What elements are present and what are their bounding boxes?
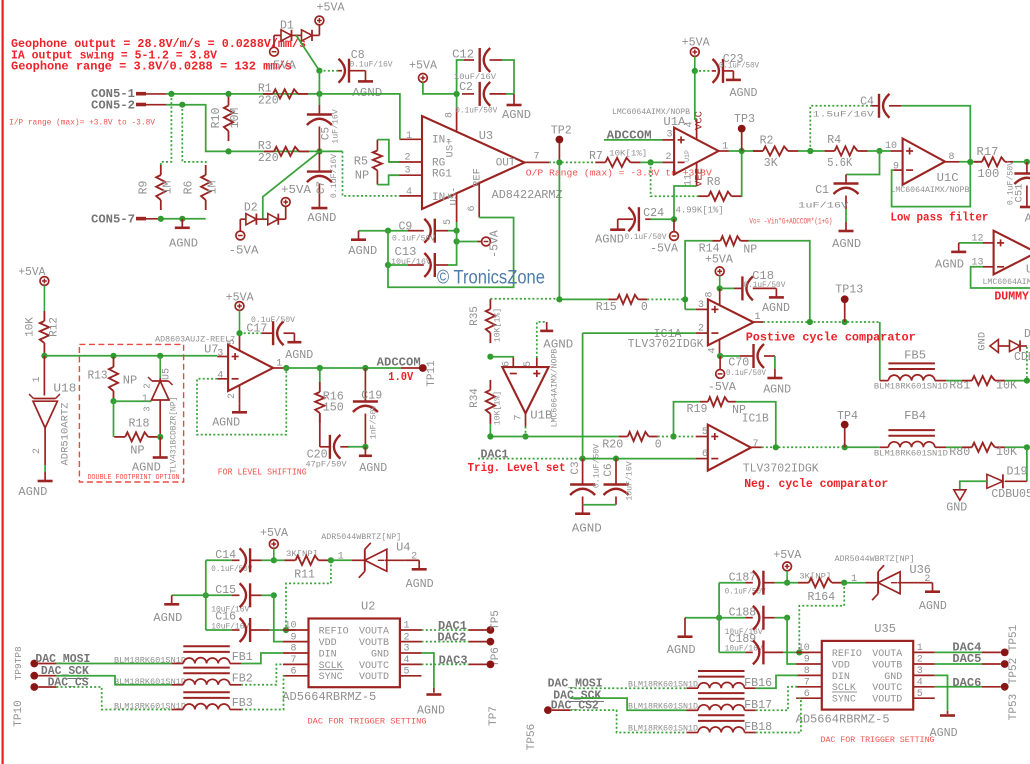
svg-text:AGND: AGND xyxy=(762,301,790,315)
junction IC1A pin8 supply xyxy=(717,285,723,291)
junction U3 OUT xyxy=(556,159,562,165)
junction U1A inverting node xyxy=(648,159,654,165)
svg-text:C70: C70 xyxy=(728,357,749,370)
svg-text:AGND: AGND xyxy=(212,415,240,429)
wire U1D feedback xyxy=(971,267,1030,288)
svg-text:C3: C3 xyxy=(570,461,582,474)
svg-text:CON5-2: CON5-2 xyxy=(91,99,135,113)
svg-text:10K: 10K xyxy=(25,317,37,337)
svg-text:2: 2 xyxy=(143,383,153,388)
pin 3 U2 xyxy=(400,652,422,654)
junction C19 top xyxy=(362,365,368,371)
resistor R7 xyxy=(595,161,605,163)
wire CON5-2 to R6 xyxy=(182,105,205,165)
pin 10 U2 xyxy=(283,629,309,631)
svg-text:D2: D2 xyxy=(244,202,258,215)
svg-text:9: 9 xyxy=(290,632,296,643)
pin 5 U2 xyxy=(400,675,422,677)
svg-text:R18: R18 xyxy=(129,417,150,431)
svg-text:10M: 10M xyxy=(229,108,242,129)
capacitor C20 xyxy=(319,413,321,447)
svg-text:U1P: U1P xyxy=(684,150,691,162)
svg-text:0.1uF/50V: 0.1uF/50V xyxy=(455,105,497,115)
svg-text:Geophone range = 3.8V/0.0288 =: Geophone range = 3.8V/0.0288 = 132 mm/s xyxy=(11,61,292,74)
svg-text:LMC6064AIMX/NOPB: LMC6064AIMX/NOPB xyxy=(983,277,1030,287)
svg-text:3: 3 xyxy=(404,644,410,655)
svg-text:R11: R11 xyxy=(294,569,315,582)
junction C3 top xyxy=(580,456,586,462)
wire 1V reference rail xyxy=(44,355,217,357)
junction R16 top xyxy=(317,365,323,371)
svg-text:U4: U4 xyxy=(396,541,410,555)
resistor R16 xyxy=(319,368,321,383)
junction R35 R34 node xyxy=(487,354,493,360)
pin 1 U2 xyxy=(400,629,422,631)
junction C9 right pin5 xyxy=(454,228,460,234)
wire R5 top bracket to pin2 xyxy=(377,140,399,162)
svg-text:10K[1%]: 10K[1%] xyxy=(609,148,647,158)
pin 1 U35 xyxy=(913,651,935,653)
junction R13 top xyxy=(110,353,116,359)
svg-text:TP53: TP53 xyxy=(1008,694,1020,720)
junction R1 right node A2 xyxy=(316,91,322,97)
svg-text:10K[1%]: 10K[1%] xyxy=(493,391,503,425)
svg-text:6: 6 xyxy=(290,667,296,678)
diode D19 xyxy=(1026,447,1028,481)
pin 6 U35 xyxy=(796,697,822,699)
svg-text:3: 3 xyxy=(217,348,223,359)
svg-text:5: 5 xyxy=(404,667,410,678)
capacitor C5 xyxy=(318,94,320,105)
svg-text:0.1uF/50V: 0.1uF/50V xyxy=(719,61,759,71)
frame border left edge xyxy=(2,0,4,764)
IC box U2 xyxy=(309,619,400,688)
ground AGND at cap rail xyxy=(685,617,719,619)
pin 7 U2 xyxy=(283,663,309,665)
wire C3 C6 bottoms xyxy=(583,504,616,506)
pin 4 U2 xyxy=(400,663,422,665)
wire R3 node diagonal to D2 xyxy=(320,150,343,152)
svg-text:0.1uF/50V: 0.1uF/50V xyxy=(625,232,667,242)
svg-text:BLM18RK601SN1D: BLM18RK601SN1D xyxy=(874,449,948,458)
svg-text:NP: NP xyxy=(355,168,369,182)
wire VEE to -5VA xyxy=(674,186,697,219)
junction CON5-1 node xyxy=(168,91,174,97)
pin 5 U35 xyxy=(913,697,935,699)
svg-text:0.1uF/50V: 0.1uF/50V xyxy=(725,586,766,596)
pin 9 U35 xyxy=(796,663,822,665)
svg-text:Vo= -Vin*G+ADCCOM*(1+G): Vo= -Vin*G+ADCCOM*(1+G) xyxy=(749,217,832,227)
svg-text:R12: R12 xyxy=(49,317,61,337)
resistor R1 xyxy=(263,93,273,95)
wire AGND-labeled net R1 node to pin1 xyxy=(320,94,400,139)
svg-text:R19: R19 xyxy=(687,403,708,416)
svg-text:10K: 10K xyxy=(996,380,1017,393)
svg-text:AGND: AGND xyxy=(169,236,198,250)
ground AGND at C23 xyxy=(732,71,734,80)
svg-text:AD5664RBRMZ-5: AD5664RBRMZ-5 xyxy=(282,690,376,704)
junction U7 supply xyxy=(236,330,242,336)
test point TP8 DAC_MOSI xyxy=(30,660,38,668)
svg-text:U5: U5 xyxy=(162,368,173,380)
svg-text:R4: R4 xyxy=(827,134,841,147)
ground AGND at U7 pin2 xyxy=(239,403,241,412)
svg-text:IC1B: IC1B xyxy=(742,412,769,426)
junction U7 output xyxy=(283,365,289,371)
svg-text:AGND: AGND xyxy=(406,577,434,591)
junction IC1B out R19 xyxy=(773,444,779,450)
svg-text:10K[1%]: 10K[1%] xyxy=(493,308,503,342)
ground AGND at U5 xyxy=(159,437,161,458)
svg-text:R6: R6 xyxy=(183,181,196,195)
svg-text:AGND: AGND xyxy=(417,704,445,718)
capacitor C51 xyxy=(1026,162,1028,174)
svg-text:GND: GND xyxy=(977,332,989,351)
svg-text:OUT: OUT xyxy=(496,157,516,169)
resistor R35 xyxy=(489,299,491,309)
wire FB18 to SYNC xyxy=(756,698,801,732)
ground AGND at C8 xyxy=(365,71,367,82)
pin 3 U35 xyxy=(913,674,935,676)
junction R164 right xyxy=(841,580,847,586)
junction R2-R4 xyxy=(798,150,825,152)
svg-text:0.1uF/50V: 0.1uF/50V xyxy=(251,315,295,325)
wire R19 right leg xyxy=(736,402,776,448)
svg-text:0.1uF/50V: 0.1uF/50V xyxy=(392,233,435,243)
svg-text:R10: R10 xyxy=(210,108,223,129)
svg-text:R17: R17 xyxy=(977,146,999,159)
svg-text:U3: U3 xyxy=(479,129,493,143)
wire R13 to U5 xyxy=(114,400,152,402)
ground AGND at C17 xyxy=(293,333,295,342)
comparator IC1A TLV3702 xyxy=(708,299,754,345)
svg-text:TP56: TP56 xyxy=(526,724,538,750)
svg-text:1M: 1M xyxy=(207,181,220,195)
power +5VA at D2 xyxy=(285,207,287,220)
svg-text:0.1uF/16V: 0.1uF/16V xyxy=(329,154,339,198)
test point TP5 xyxy=(487,626,495,634)
svg-text:DIN: DIN xyxy=(319,649,337,660)
wire ref to REFIO xyxy=(286,560,331,630)
junction C6 top xyxy=(613,456,619,462)
svg-text:4: 4 xyxy=(404,655,410,666)
svg-text:2: 2 xyxy=(404,632,410,643)
svg-text:7: 7 xyxy=(290,655,296,666)
svg-text:DUMMY: DUMMY xyxy=(994,290,1029,303)
svg-text:8: 8 xyxy=(704,291,715,297)
svg-text:C4: C4 xyxy=(860,96,874,109)
svg-text:LMC6064AIMX/NOPB: LMC6064AIMX/NOPB xyxy=(550,349,560,428)
junction U1A output xyxy=(739,148,745,154)
junction R4 right xyxy=(876,148,882,154)
shunt ref U5 TLV431 xyxy=(157,353,163,359)
svg-text:AGND: AGND xyxy=(352,86,382,100)
svg-text:U36: U36 xyxy=(909,563,931,577)
pin 9 U2 xyxy=(283,641,309,643)
svg-text:FOR LEVEL SHIFTING: FOR LEVEL SHIFTING xyxy=(218,467,307,477)
svg-text:1: 1 xyxy=(404,621,410,632)
svg-text:TP5: TP5 xyxy=(490,610,502,630)
svg-text:R5: R5 xyxy=(354,155,368,169)
svg-text:ADR5044WBRTZ[NP]: ADR5044WBRTZ[NP] xyxy=(321,533,401,542)
junction -5VA branch xyxy=(454,238,460,244)
svg-text:-5VA: -5VA xyxy=(708,381,736,394)
wire FB17 to SCLK xyxy=(756,687,798,711)
svg-text:TP52: TP52 xyxy=(1008,658,1020,684)
junction TP2 net R15 xyxy=(556,296,562,302)
svg-text:-5VA: -5VA xyxy=(229,244,259,257)
wire trig riser xyxy=(582,333,584,459)
svg-text:Neg. cycle comparator: Neg. cycle comparator xyxy=(744,477,888,491)
svg-text:R164: R164 xyxy=(808,591,836,604)
svg-text:1nF/50V: 1nF/50V xyxy=(369,405,379,439)
comparator IC1B TLV3702 xyxy=(708,425,751,471)
svg-text:VOUTA: VOUTA xyxy=(359,626,389,637)
svg-text:+5VA: +5VA xyxy=(409,60,437,73)
wire R3 node to U3 IN+ xyxy=(343,151,400,196)
svg-text:DAC3: DAC3 xyxy=(439,654,468,667)
pin 4 U35 xyxy=(913,686,935,688)
svg-text:FB2: FB2 xyxy=(232,672,253,685)
ground AGND at C7 xyxy=(311,207,327,210)
svg-text:TLV431BCDBZR[NP]: TLV431BCDBZR[NP] xyxy=(170,397,179,474)
svg-text:U2: U2 xyxy=(361,600,375,614)
svg-text:5: 5 xyxy=(443,219,454,225)
svg-text:0.1uF/50V: 0.1uF/50V xyxy=(592,444,602,488)
wire R35R34 node to pin6 xyxy=(490,356,513,359)
svg-text:AGND: AGND xyxy=(543,337,573,351)
pin 8 U2 xyxy=(283,652,309,654)
pin 8 U35 xyxy=(796,674,822,676)
svg-text:DAC FOR TRIGGER SETTING: DAC FOR TRIGGER SETTING xyxy=(821,735,935,745)
svg-text:5: 5 xyxy=(917,689,923,700)
svg-text:AGND: AGND xyxy=(572,522,602,536)
svg-text:1: 1 xyxy=(32,376,43,382)
svg-text:GND: GND xyxy=(371,649,389,660)
svg-text:TP3: TP3 xyxy=(734,113,755,126)
svg-text:AD8603AUJZ-REEL7: AD8603AUJZ-REEL7 xyxy=(155,336,235,345)
svg-text:TLV3702IDGK: TLV3702IDGK xyxy=(743,463,819,476)
power -5VA at U3 xyxy=(457,241,478,243)
svg-text:10: 10 xyxy=(284,621,296,632)
junction R17 right xyxy=(1024,159,1030,165)
svg-text:FB3: FB3 xyxy=(232,697,253,710)
wire top rail to R35 xyxy=(490,298,559,300)
svg-text:AGND: AGND xyxy=(730,86,758,100)
op-amp U1B down-pointing xyxy=(502,367,548,413)
svg-text:6: 6 xyxy=(502,361,513,367)
svg-text:R7: R7 xyxy=(589,150,603,163)
svg-text:REFIO: REFIO xyxy=(319,626,349,637)
svg-text:47pF/50V: 47pF/50V xyxy=(306,459,347,469)
svg-text:ADR5044WBRTZ[NP]: ADR5044WBRTZ[NP] xyxy=(835,555,915,564)
junction R10 bottom xyxy=(225,148,231,154)
svg-text:US+: US+ xyxy=(445,139,457,158)
svg-text:5: 5 xyxy=(227,339,238,345)
wire FB16 to DIN xyxy=(756,675,798,688)
svg-text:2: 2 xyxy=(666,152,672,163)
junction node A xyxy=(316,68,322,74)
svg-text:Trig. Level set: Trig. Level set xyxy=(468,461,566,475)
wire R8 to output xyxy=(741,151,743,196)
capacitor C17 xyxy=(240,332,263,334)
svg-text:8: 8 xyxy=(804,666,810,677)
ground AGND at U18 xyxy=(44,472,46,481)
capacitor C3 xyxy=(582,459,584,485)
svg-text:ADCCOM: ADCCOM xyxy=(377,356,421,369)
svg-text:R9: R9 xyxy=(138,181,151,195)
svg-text:9: 9 xyxy=(804,655,810,666)
junction output R14 xyxy=(807,319,813,325)
svg-text:ADR510ARTZ: ADR510ARTZ xyxy=(60,402,72,465)
svg-text:0.1uF/50V: 0.1uF/50V xyxy=(1006,161,1016,205)
svg-text:REFIO: REFIO xyxy=(832,649,862,660)
svg-text:100: 100 xyxy=(977,168,999,181)
svg-text:CON5-7: CON5-7 xyxy=(91,213,135,227)
svg-text:3K: 3K xyxy=(764,157,778,170)
resistor R34 xyxy=(489,380,491,390)
svg-text:VOUTC: VOUTC xyxy=(359,661,389,672)
wire REF loop xyxy=(388,218,514,288)
svg-text:AGND: AGND xyxy=(919,599,947,613)
wire ADCCOM net xyxy=(284,367,401,369)
capacitor C6 xyxy=(615,459,617,485)
svg-text:VDD: VDD xyxy=(319,638,337,649)
junction IC1B out TP4 xyxy=(842,444,848,450)
svg-text:5.6K: 5.6K xyxy=(827,157,852,170)
svg-text:-5VA: -5VA xyxy=(489,230,502,258)
wire CON5-1 net xyxy=(166,93,320,95)
junction R9 bottom xyxy=(158,216,164,222)
svg-text:SYNC: SYNC xyxy=(832,695,856,706)
svg-text:C24: C24 xyxy=(643,207,664,220)
junction C19 C20 bottom xyxy=(362,444,368,450)
junction U1C output xyxy=(967,159,973,165)
svg-text:AD8422ARMZ: AD8422ARMZ xyxy=(492,189,563,202)
wire VDD rail xyxy=(274,595,283,641)
svg-text:D19: D19 xyxy=(1007,466,1028,479)
svg-text:7: 7 xyxy=(514,414,525,420)
svg-text:C6: C6 xyxy=(603,463,615,476)
svg-text:SCLK: SCLK xyxy=(832,683,856,694)
svg-text:TP10: TP10 xyxy=(13,700,25,726)
junction CON5-2 node xyxy=(179,102,185,108)
svg-text:C1: C1 xyxy=(815,184,829,197)
svg-text:GND: GND xyxy=(946,502,967,515)
junction R3 right node B xyxy=(316,148,322,154)
svg-text:+5VA: +5VA xyxy=(705,253,733,266)
svg-text:4: 4 xyxy=(217,371,223,382)
junction output TP13 xyxy=(842,319,848,325)
junction R15 to vertical xyxy=(682,296,688,302)
svg-text:DAC FOR TRIGGER SETTING: DAC FOR TRIGGER SETTING xyxy=(308,717,427,727)
resistor R9 xyxy=(160,165,162,175)
svg-text:TP2: TP2 xyxy=(551,124,572,137)
pin 10 U35 xyxy=(796,651,822,653)
resistor R12 xyxy=(43,311,45,321)
wire U7 feedback loop xyxy=(197,368,286,435)
ground AGND at C51 xyxy=(1020,206,1030,209)
svg-text:1: 1 xyxy=(917,643,923,654)
svg-text:AD5664RBRMZ-5: AD5664RBRMZ-5 xyxy=(796,712,890,726)
wire VDD rail xyxy=(787,618,796,664)
capacitor C4 feedback xyxy=(810,106,871,151)
svg-text:VOUTC: VOUTC xyxy=(872,683,902,694)
svg-text:D1: D1 xyxy=(1024,328,1030,341)
svg-text:+5VA: +5VA xyxy=(773,549,801,562)
power -5VA at U1A xyxy=(673,219,675,231)
svg-text:I/P range (max)= +3.8V to -3.8: I/P range (max)= +3.8V to -3.8V xyxy=(9,118,156,128)
svg-text:AGND: AGND xyxy=(132,461,161,475)
wire pin5 down xyxy=(456,222,458,231)
svg-text:AGND: AGND xyxy=(348,244,377,258)
svg-text:AGND: AGND xyxy=(595,233,624,247)
svg-text:VOUTD: VOUTD xyxy=(359,672,389,683)
wire R14 left leg xyxy=(685,241,712,310)
wire +5VA down to VCC xyxy=(695,71,697,119)
svg-text:NP: NP xyxy=(743,244,757,257)
svg-text:3: 3 xyxy=(143,406,153,411)
svg-text:C7: C7 xyxy=(316,181,328,194)
svg-text:CDBU: CDBU xyxy=(1014,351,1030,364)
ground AGND at C2 xyxy=(513,94,515,105)
op-amp U3 AD8422ARMZ xyxy=(422,116,525,209)
wire R15 net xyxy=(559,298,608,300)
junction REFIO xyxy=(796,649,802,655)
svg-text:TLV3702IDGK: TLV3702IDGK xyxy=(628,338,704,351)
svg-text:R13: R13 xyxy=(88,368,108,382)
svg-text:1uF/16V: 1uF/16V xyxy=(798,200,848,210)
svg-text:3: 3 xyxy=(917,666,923,677)
svg-text:0.1uF/50V: 0.1uF/50V xyxy=(743,280,785,290)
junction ref rail left xyxy=(41,353,47,359)
svg-text:-5VA: -5VA xyxy=(650,242,678,255)
svg-text:4: 4 xyxy=(917,678,923,689)
power -5VA at D1 xyxy=(273,35,275,47)
svg-text:TP51: TP51 xyxy=(1008,624,1020,651)
wire FB2 to SCLK xyxy=(241,664,283,684)
svg-text:DIN: DIN xyxy=(832,672,850,683)
svg-text:AGND: AGND xyxy=(763,383,791,397)
junction C14 row C14 xyxy=(271,557,277,563)
svg-text:10uF/16V: 10uF/16V xyxy=(625,461,635,500)
ground AGND at C19 xyxy=(364,447,366,456)
svg-text:220: 220 xyxy=(258,94,279,107)
capacitor C70 xyxy=(720,355,740,357)
svg-text:R15: R15 xyxy=(596,301,617,314)
svg-text:Low pass filter: Low pass filter xyxy=(890,210,988,224)
wire TP2 net down to R15 xyxy=(558,162,560,299)
svg-text:150: 150 xyxy=(323,401,344,414)
svg-text:RG1: RG1 xyxy=(432,168,452,180)
junction C9 left xyxy=(385,228,391,234)
svg-text:0.1uF/16V: 0.1uF/16V xyxy=(350,60,393,70)
capacitor C12 xyxy=(457,60,464,94)
wire U2 GND pin to AGND xyxy=(422,653,434,688)
svg-text:FB4: FB4 xyxy=(904,410,926,423)
svg-text:+5VA: +5VA xyxy=(281,184,311,197)
wire ADCCOM to pin3 xyxy=(604,139,662,141)
svg-text:U1C: U1C xyxy=(937,171,959,185)
svg-text:AGND: AGND xyxy=(502,108,531,122)
svg-text:2: 2 xyxy=(227,393,238,399)
svg-text:220: 220 xyxy=(258,152,279,165)
wire node A down to R1 node xyxy=(318,71,320,94)
svg-text:CDBU05: CDBU05 xyxy=(991,488,1030,501)
svg-text:R81: R81 xyxy=(949,380,970,393)
svg-text:0: 0 xyxy=(655,439,662,452)
junction R11 right xyxy=(328,557,334,563)
